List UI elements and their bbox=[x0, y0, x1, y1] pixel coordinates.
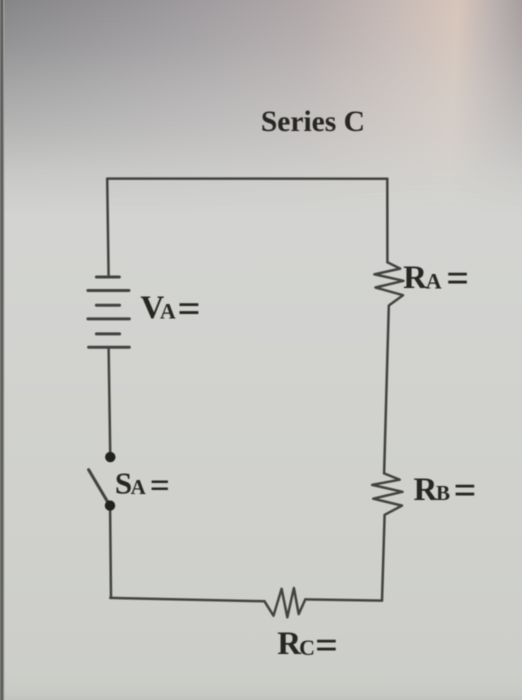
svg-text:=: = bbox=[454, 467, 477, 512]
label S_A = bbox=[115, 465, 170, 505]
label R_B = bbox=[414, 467, 477, 512]
svg-text:R: R bbox=[403, 260, 428, 296]
svg-text:A: A bbox=[160, 299, 176, 324]
svg-text:A: A bbox=[131, 475, 147, 499]
switch S_A bottom node bbox=[105, 500, 115, 510]
svg-text:C: C bbox=[299, 635, 315, 660]
wire right middle bbox=[384, 306, 389, 473]
switch S_A blade bbox=[89, 470, 108, 502]
svg-text:R: R bbox=[414, 472, 439, 508]
label R_C = bbox=[277, 622, 338, 667]
resistor R_B bbox=[372, 473, 402, 514]
svg-text:=: = bbox=[178, 286, 201, 331]
svg-text:B: B bbox=[436, 481, 450, 505]
battery V_A bbox=[88, 277, 129, 347]
svg-text:A: A bbox=[426, 269, 442, 294]
wire left lower bbox=[109, 510, 112, 598]
resistor R_C bbox=[265, 588, 306, 617]
svg-text:=: = bbox=[150, 466, 170, 505]
svg-text:Series C: Series C bbox=[261, 106, 365, 138]
wire bottom left bbox=[110, 598, 264, 601]
svg-text:=: = bbox=[446, 255, 469, 300]
wire left upper bbox=[107, 179, 108, 277]
wire right lower bbox=[382, 515, 385, 601]
resistor R_A bbox=[374, 262, 403, 305]
wire left middle bbox=[109, 347, 111, 452]
wire right upper bbox=[386, 179, 389, 263]
switch S_A top node bbox=[105, 452, 115, 462]
label R_A = bbox=[403, 255, 469, 300]
svg-text:S: S bbox=[115, 465, 132, 500]
svg-text:=: = bbox=[315, 622, 338, 667]
label V_A = bbox=[140, 286, 200, 331]
wire bottom right bbox=[305, 599, 382, 600]
wire top bbox=[107, 177, 387, 180]
